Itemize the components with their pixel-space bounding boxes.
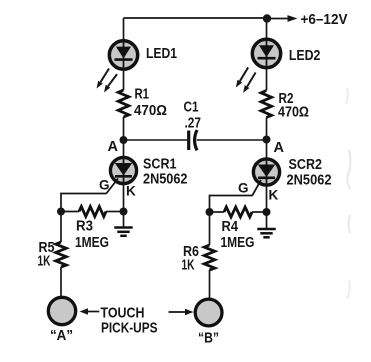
wire top rail — [124, 17, 268, 19]
resistor R6 — [204, 245, 215, 270]
capacitor C1 — [189, 130, 197, 150]
node A right junction — [263, 136, 271, 144]
wire SCR1 gate run — [61, 194, 107, 212]
smudge right edge lower — [349, 215, 351, 233]
node gate-right junction — [206, 208, 214, 216]
svg-text:R1: R1 — [135, 87, 150, 103]
resistor R5 — [56, 242, 67, 267]
callout arrow to pad B — [169, 309, 194, 315]
LED1 emission arrow 1 — [97, 69, 110, 89]
wire SCR2 gate run — [210, 196, 253, 213]
resistor R3 — [79, 207, 106, 217]
LED2 emission arrow 1 — [236, 67, 248, 87]
wire R1 to node A — [123, 117, 125, 140]
svg-text:PICK-UPS: PICK-UPS — [101, 320, 158, 337]
wire left column top — [123, 18, 125, 41]
touch pad A — [48, 297, 75, 324]
svg-text:G: G — [99, 178, 110, 193]
svg-text:.27: .27 — [185, 116, 202, 132]
node gate-left junction — [57, 208, 65, 216]
wire supply arrow stem — [267, 18, 288, 20]
svg-text:1K: 1K — [38, 254, 51, 270]
LED2 emission arrow 2 — [243, 73, 256, 93]
wire R4 to cathode junction — [252, 211, 263, 213]
SCR U2 SCR2 — [252, 140, 279, 196]
resistor R2 — [261, 91, 272, 118]
svg-text:R3: R3 — [76, 219, 93, 235]
wire to R4 — [210, 211, 225, 213]
svg-text:SCR2: SCR2 — [289, 157, 323, 173]
resistor R1 — [118, 90, 129, 117]
svg-text:A: A — [274, 140, 285, 156]
svg-text:+6–12V: +6–12V — [301, 12, 348, 28]
smudge right edge top — [346, 88, 348, 104]
node supply junction — [263, 14, 271, 22]
wire SCR2 cathode down — [266, 186, 268, 213]
svg-text:1MEG: 1MEG — [221, 235, 255, 251]
wire C1 to node A right — [197, 139, 267, 141]
callout arrow to pad A — [80, 308, 100, 314]
wire R5 to pad A — [60, 267, 62, 296]
wire gate junction to R5 — [60, 212, 62, 243]
svg-text:G: G — [238, 181, 249, 196]
svg-text:R4: R4 — [222, 219, 239, 235]
wire LED1 to R1 — [123, 69, 125, 91]
svg-text:470Ω: 470Ω — [278, 105, 309, 121]
svg-text:K: K — [269, 188, 279, 203]
svg-text:LED1: LED1 — [146, 46, 177, 62]
smudge right edge upper — [347, 150, 350, 189]
svg-text:1MEG: 1MEG — [75, 235, 109, 251]
svg-text:LED2: LED2 — [289, 48, 321, 64]
supply arrow head — [288, 15, 298, 22]
LED LED1 — [109, 41, 137, 69]
wire right column top — [266, 19, 268, 41]
svg-text:A: A — [108, 139, 119, 155]
touch pad B — [195, 299, 222, 326]
ground left — [114, 212, 132, 236]
LED LED2 — [252, 39, 280, 67]
smudge right edge bottom — [347, 280, 350, 299]
wire to R3 — [61, 211, 79, 213]
node A left junction — [120, 136, 128, 144]
LED1 emission arrow 2 — [104, 74, 117, 92]
svg-text:C1: C1 — [184, 100, 199, 116]
resistor R4 — [224, 207, 252, 217]
svg-text:1K: 1K — [182, 258, 195, 274]
svg-text:K: K — [126, 184, 136, 199]
svg-text:2N5062: 2N5062 — [143, 172, 188, 188]
node cathode-left junction — [120, 208, 128, 216]
wire R3 to cathode junction — [106, 211, 120, 213]
wire R2 to node A right — [266, 118, 268, 140]
wire SCR1 cathode down — [123, 184, 125, 212]
svg-text:470Ω: 470Ω — [134, 103, 167, 119]
svg-text:SCR1: SCR1 — [143, 157, 177, 173]
wire node A to C1 — [124, 139, 188, 141]
ground right — [257, 212, 275, 237]
wire LED2 to R2 — [266, 67, 268, 91]
wire gate junction to R6 — [209, 212, 211, 245]
svg-text:2N5062: 2N5062 — [287, 173, 332, 189]
SCR U1 SCR1 — [106, 140, 136, 194]
node cathode-right junction — [263, 208, 271, 216]
wire R6 to pad B — [209, 270, 211, 298]
svg-text:“A”: “A” — [50, 327, 73, 344]
svg-text:“B”: “B” — [198, 330, 219, 347]
